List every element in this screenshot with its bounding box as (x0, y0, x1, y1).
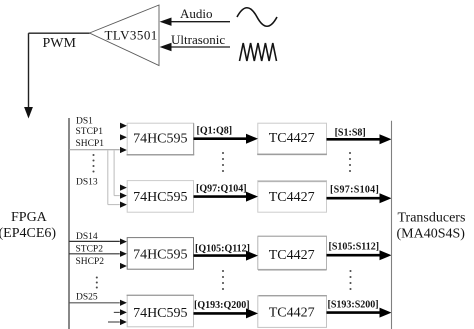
bus arrow S1:S8 (327, 138, 381, 141)
wire Audio input (170, 21, 230, 23)
wire stub to 595 no.25 SHCP (108, 321, 120, 323)
wire STCP2 (69, 253, 120, 255)
svg-text:TC4427: TC4427 (269, 306, 315, 321)
svg-text:Audio: Audio (180, 6, 213, 21)
svg-text:[Q105:Q112]: [Q105:Q112] (195, 243, 250, 254)
driver box TC4427 no.1 (257, 123, 327, 155)
svg-text:DS1: DS1 (76, 117, 93, 127)
svg-text:Ultrasonic: Ultrasonic (171, 32, 225, 47)
input arrowheads shift register no.1 (120, 123, 127, 129)
arrowhead Ultrasonic input (160, 43, 172, 51)
ellipsis Q column gap1 (222, 152, 224, 154)
driver box TC4427 no.13 (258, 181, 327, 213)
transducer array bus line (391, 121, 393, 329)
wire DS25 (69, 302, 120, 304)
svg-text:[S97:S104]: [S97:S104] (330, 185, 379, 196)
shift register box 74HC595 no.13 (127, 181, 193, 213)
svg-text:SHCP1: SHCP1 (76, 139, 105, 149)
shift register box 74HC595 no.14 (127, 238, 193, 270)
shift register box 74HC595 no.25 (127, 295, 194, 327)
input arrowheads shift register no.14 (120, 239, 127, 245)
svg-text:(MA40S4S): (MA40S4S) (397, 227, 466, 242)
source sine wave (audio) (237, 8, 277, 27)
svg-text:TC4427: TC4427 (269, 131, 315, 146)
bus drop SHCP1 to 595 no.13 (107, 150, 109, 204)
bus drop STCP1 to 595 no.13 (113, 150, 115, 195)
svg-text:PWM: PWM (43, 36, 77, 51)
arrowhead PWM into FPGA (24, 107, 33, 119)
svg-text:74HC595: 74HC595 (133, 306, 187, 321)
bus arrow Q1:Q8 (194, 137, 248, 140)
svg-text:DS13: DS13 (76, 177, 98, 187)
wire SHCP1 (69, 149, 120, 151)
bus arrow Q105:Q112 (194, 254, 248, 257)
bus arrow Q193:Q200 (194, 312, 248, 315)
bus arrow Q97:Q104 (194, 195, 248, 198)
arrowhead Audio input (160, 18, 172, 26)
driver box TC4427 no.25 (258, 296, 327, 328)
svg-text:74HC595: 74HC595 (133, 190, 187, 205)
wire PWM vertical (28, 33, 30, 108)
svg-text:[S193:S200]: [S193:S200] (328, 299, 379, 310)
svg-text:[S105:S112]: [S105:S112] (329, 242, 380, 253)
svg-text:TC4427: TC4427 (269, 190, 315, 205)
svg-text:STCP1: STCP1 (76, 127, 104, 137)
ellipsis S column gap1 (349, 152, 351, 154)
wire PWM horizontal (29, 32, 90, 34)
svg-text:TC4427: TC4427 (269, 248, 315, 263)
bus arrow S97:S104 (327, 197, 381, 200)
comparator U1 TLV3501 (90, 5, 160, 66)
shift register box 74HC595 no.1 (127, 123, 195, 155)
ellipsis S column gap2 (349, 270, 351, 272)
ellipsis labels group2 (96, 276, 98, 278)
FPGA right edge bus line (68, 118, 70, 329)
wire DS14 (69, 240, 120, 242)
svg-text:DS14: DS14 (76, 232, 98, 242)
svg-text:DS25: DS25 (76, 293, 98, 303)
svg-text:[Q1:Q8]: [Q1:Q8] (197, 125, 233, 136)
svg-text:74HC595: 74HC595 (133, 131, 187, 146)
bus arrow S193:S200 (327, 311, 381, 314)
svg-text:[Q193:Q200]: [Q193:Q200] (194, 300, 250, 311)
input arrowheads shift register no.25 (120, 300, 127, 306)
svg-text:FPGA: FPGA (11, 210, 48, 225)
wire stub to 595 no.25 STCP (114, 311, 120, 313)
source triangle wave (ultrasonic) (240, 43, 277, 61)
svg-text:STCP2: STCP2 (76, 245, 104, 255)
svg-text:[S1:S8]: [S1:S8] (335, 127, 366, 138)
svg-text:74HC595: 74HC595 (133, 248, 187, 263)
bus arrow S105:S112 (327, 254, 381, 257)
driver box TC4427 no.14 (258, 236, 327, 270)
wire Ultrasonic input (170, 46, 230, 48)
ellipsis labels group1 (92, 154, 94, 156)
ellipsis Q column gap2 (222, 270, 224, 272)
svg-text:SHCP2: SHCP2 (76, 257, 105, 267)
input arrowheads shift register no.13 (120, 185, 127, 191)
svg-text:Transducers: Transducers (398, 211, 466, 226)
svg-text:(EP4CE6): (EP4CE6) (0, 226, 56, 241)
svg-text:[Q97:Q104]: [Q97:Q104] (196, 183, 247, 194)
svg-text:TLV3501: TLV3501 (105, 27, 158, 42)
